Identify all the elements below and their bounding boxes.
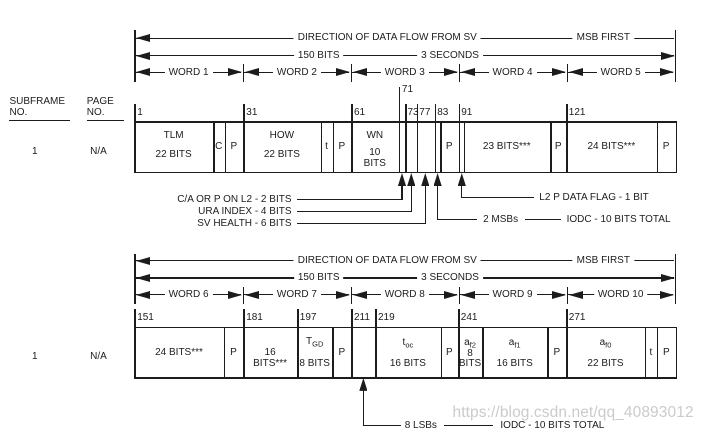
row2 cell boundary af1|P [547, 327, 549, 379]
top header word separator at x=242.9 [243, 64, 245, 82]
tick line bit 91 [459, 104, 461, 121]
bit number 181 [246, 313, 263, 323]
URA arrow stem [411, 185, 412, 213]
cell WN 10 [369, 148, 380, 158]
tick line bit 71 (tall) [399, 87, 401, 121]
underline page no. [87, 120, 124, 121]
bottom header WORD 9 left arrowhead [461, 291, 475, 299]
label 2 MSBs [483, 215, 518, 225]
cell af0 22 BITS [587, 359, 623, 369]
top header WORD 3 left arrowhead [353, 68, 367, 76]
8-LSBs arrow stem [363, 389, 364, 427]
tick line bit 181 [243, 309, 245, 327]
top header label 3 SECONDS [417, 51, 483, 61]
L2P-flag arrow stem [461, 185, 462, 199]
row1 cell boundary P1|HOW [243, 121, 245, 173]
bit number 121 [569, 108, 586, 118]
SV-health arrow head [421, 173, 429, 186]
tick line bit 121 [566, 104, 568, 121]
row1 cell boundary C|P1 [225, 121, 227, 173]
row1 cell boundary health|2MSB (83) [435, 121, 437, 173]
label C/A OR P ON L2 - 2 BITS [177, 195, 291, 205]
label SUBFRAME NO. [10, 96, 66, 118]
cell P (word9 parity) [553, 348, 560, 358]
top header WORD 5 left arrowhead [569, 68, 583, 76]
cell P (word2 parity) [338, 142, 345, 152]
bottom header WORD 10 left arrowhead [569, 291, 583, 299]
cell WN BITS [364, 159, 386, 169]
bottom header word separator at x=458.6 [459, 287, 461, 305]
SV-health arrow leader line [297, 223, 426, 224]
top header label DIRECTION OF DATA FLOW FROM SV [294, 33, 481, 43]
row2 left edge [134, 309, 136, 379]
row1 cell boundary t|P2 [333, 121, 335, 173]
bottom header WORD 6 left arrowhead [136, 291, 150, 299]
table row1 bottom border [134, 172, 677, 174]
row1 left edge [134, 104, 136, 174]
row2 cell boundary P|af2 (241) [458, 327, 460, 379]
C/A arrow leader line [297, 199, 403, 200]
row1 cell boundary L2code|URA (73) [405, 121, 407, 173]
top header label 150 BITS [294, 51, 344, 61]
top header 150-bits line [135, 55, 674, 56]
page N/A (row 2) [90, 352, 107, 362]
bottom header word separator at x=350.9 [351, 287, 353, 305]
label URA INDEX - 4 BITS [198, 207, 291, 217]
page N/A (row 1) [90, 147, 107, 157]
row1 cell boundary WN|L2code (71) [399, 121, 401, 173]
bottom header right end bar [675, 254, 677, 304]
bottom header word separator at x=242.9 [243, 287, 245, 305]
tick line bit 241 [458, 309, 460, 327]
table row2 top border [134, 327, 677, 329]
C/A arrow stem [401, 185, 402, 201]
top header WORD 1 left arrowhead [136, 68, 150, 76]
bottom header WORD 7 left arrowhead [245, 291, 259, 299]
top header label WORD 2 [273, 68, 321, 78]
top header data-flow line [135, 38, 674, 39]
C/A arrow head [398, 173, 406, 186]
bottom header left end bar [134, 254, 136, 304]
row2 cell boundary TGD|P [332, 327, 334, 379]
row2 cell boundary P|8LSB (211) [351, 327, 353, 379]
bottom header WORD 9 line [460, 294, 565, 295]
top header left end bar [134, 30, 136, 82]
subframe number 1 (row 2) [32, 352, 38, 362]
bit number 197 [300, 313, 317, 323]
top header data-flow left arrowhead [136, 34, 150, 42]
bottom header WORD 10 line [568, 294, 673, 295]
cell toc 16 BITS [390, 359, 426, 369]
row2 right edge [676, 327, 678, 379]
bottom header 150-bits line [135, 277, 674, 278]
bit number 73 [408, 108, 419, 118]
cell P (word8 parity) [446, 348, 453, 358]
bit number 151 [137, 313, 154, 323]
row2 cell boundary P|af0 (271) [566, 327, 568, 379]
top header label WORD 1 [165, 68, 213, 78]
top header label MSB FIRST [573, 33, 634, 43]
cell af1 [509, 338, 521, 351]
label L2 P DATA FLAG - 1 BIT [539, 193, 648, 203]
watermark blog url [453, 403, 694, 422]
top header WORD 2 line [244, 72, 349, 73]
row2 cell boundary t|P [657, 327, 659, 379]
bottom header label MSB FIRST [573, 256, 634, 266]
bit number 211 [354, 313, 370, 323]
row1 cell boundary 23bits|P4 [550, 121, 552, 173]
bottom header WORD 8 line [352, 294, 457, 295]
bottom header WORD 7 line [244, 294, 349, 295]
top header WORD 4 right arrowhead [552, 68, 566, 76]
top header right end bar [675, 30, 677, 82]
label SV HEALTH - 6 BITS [197, 219, 291, 229]
cell af1 16 BITS [497, 359, 533, 369]
top header WORD 3 line [352, 72, 457, 73]
bottom header WORD 8 right arrowhead [444, 291, 458, 299]
top header label WORD 5 [597, 68, 645, 78]
top header 150-bits left arrowhead [136, 52, 150, 60]
bottom header WORD 10 right arrowhead [660, 291, 674, 299]
top header WORD 5 line [568, 72, 673, 73]
bit number 71 [402, 85, 413, 95]
cell P (word3 parity) [446, 142, 453, 152]
bottom header label DIRECTION OF DATA FLOW FROM SV [294, 256, 481, 266]
top header 3-seconds right arrowhead [661, 52, 675, 60]
cell P (word1 parity) [231, 142, 238, 152]
tick line bit 219 [375, 309, 377, 327]
top header WORD 3 right arrowhead [444, 68, 458, 76]
row1 cell boundary L2Pflag|23bits [464, 121, 466, 173]
top header word separator at x=350.9 [351, 64, 353, 82]
cell TLM [164, 131, 184, 141]
label IODC - 10 BITS TOTAL (lower) [500, 421, 604, 431]
bit number 241 [461, 313, 478, 323]
IODC lower leader line [444, 425, 493, 426]
cell TLM bits [156, 150, 192, 160]
L2P-flag arrow head [458, 173, 466, 186]
tick line bit 211 [351, 309, 353, 327]
row1 cell boundary HOW|t [321, 121, 323, 173]
bit number 83 [437, 108, 448, 118]
top header WORD 2 right arrowhead [336, 68, 350, 76]
cell af2 BITS [459, 359, 481, 369]
cell C [215, 142, 222, 152]
bottom header 3-seconds right arrowhead [661, 274, 675, 282]
row2 cell boundary P|16bits (181) [243, 327, 245, 379]
cell af0 [600, 338, 612, 351]
tick line bit 83 [435, 104, 437, 121]
cell P (word6 parity) [230, 348, 237, 358]
bottom header WORD 6 line [136, 294, 242, 295]
bit number 31 [246, 108, 257, 118]
cell TGD [306, 337, 323, 350]
row2 cell boundary 24bits|P [224, 327, 226, 379]
top header label WORD 4 [489, 68, 537, 78]
bit number 91 [461, 108, 472, 118]
bottom header label WORD 9 [489, 290, 537, 300]
bottom header WORD 9 right arrowhead [552, 291, 566, 299]
table row2 bottom border [134, 377, 677, 379]
IODC upper leader line [525, 219, 561, 220]
row2 cell boundary toc|P [441, 327, 443, 379]
2-MSBs arrow stem [437, 185, 438, 221]
cell af2 [464, 338, 476, 351]
8-LSBs leader line [363, 425, 401, 426]
top header word separator at x=566.5 [567, 64, 569, 82]
cell P (word7 parity) [338, 348, 345, 358]
cell af2 8 [467, 349, 473, 359]
URA arrow leader line [297, 211, 412, 212]
cell TGD 8 BITS [299, 359, 330, 369]
bottom header label WORD 10 [594, 290, 648, 300]
tick line bit 271 [566, 309, 568, 327]
row1 cell boundary 2MSB|P3 [440, 121, 442, 173]
cell 16 BITS*** [253, 359, 287, 369]
label IODC - 10 BITS TOTAL (upper) [567, 215, 671, 225]
cell P (word10 parity) [663, 348, 670, 358]
top header WORD 2 left arrowhead [245, 68, 259, 76]
cell HOW bits [264, 150, 300, 160]
2-MSBs arrow head [434, 173, 442, 186]
bottom header label WORD 7 [273, 290, 321, 300]
row1 cell boundary URA|health (77) [417, 121, 419, 173]
cell HOW [270, 131, 294, 141]
top header WORD 5 right arrowhead [660, 68, 674, 76]
URA arrow head [407, 173, 415, 186]
top header WORD 4 line [460, 72, 565, 73]
bottom header data-flow left arrowhead [136, 257, 150, 265]
bottom header WORD 6 right arrowhead [228, 291, 242, 299]
bottom header data-flow line [135, 260, 674, 261]
SV-health arrow stem [425, 185, 426, 225]
table row1 top border [134, 121, 677, 123]
row2 cell boundary 8LSB|toc (219) [375, 327, 377, 379]
cell 16 [265, 348, 276, 358]
label PAGE NO. [87, 96, 114, 118]
row2 cell boundary af2|af1 [482, 327, 484, 379]
bottom header label WORD 6 [165, 290, 213, 300]
row2 cell boundary af0|t [645, 327, 647, 379]
cell WN [366, 131, 383, 141]
tick line bit 77 [417, 104, 419, 121]
bit number 271 [569, 313, 586, 323]
row1 cell boundary P4|24bits (121) [566, 121, 568, 173]
bit number 219 [378, 313, 395, 323]
row1 cell boundary 24bits|P5 [657, 121, 659, 173]
cell 24 BITS*** [155, 348, 203, 358]
bottom header WORD 8 left arrowhead [353, 291, 367, 299]
cell toc [403, 338, 414, 351]
bit number 1 [137, 108, 143, 118]
label 8 LSBs [405, 421, 437, 431]
bottom header word separator at x=566.5 [567, 287, 569, 305]
2-MSBs leader line [438, 219, 477, 220]
row2 cell boundary 16bits|TGD (197) [297, 327, 299, 379]
bit number 77 [419, 108, 430, 118]
tick line bit 73 [405, 104, 407, 121]
cell 24 BITS*** [587, 142, 635, 152]
cell t [325, 142, 328, 152]
top header label WORD 3 [381, 68, 429, 78]
L2P-flag leader line [462, 197, 535, 198]
tick line bit 61 [351, 104, 353, 121]
top header WORD 4 left arrowhead [461, 68, 475, 76]
row1 cell boundary TLM|C [213, 121, 215, 173]
cell P (word4 parity) [555, 142, 562, 152]
underline subframe no. [9, 120, 70, 121]
bottom header WORD 7 right arrowhead [336, 291, 350, 299]
cell 23 BITS*** [483, 142, 531, 152]
8-LSBs arrow head [359, 378, 367, 391]
top header WORD 1 right arrowhead [228, 68, 242, 76]
tick line bit 31 [243, 104, 245, 121]
bottom header label 3 SECONDS [417, 273, 483, 283]
tick line bit 197 [297, 309, 299, 327]
bottom header label WORD 8 [381, 290, 429, 300]
top header word separator at x=458.6 [459, 64, 461, 82]
row1 cell boundary P2|WN [351, 121, 353, 173]
cell P (word5 parity) [663, 142, 670, 152]
cell t (word10) [650, 348, 653, 358]
subframe number 1 (row 1) [32, 147, 38, 157]
bottom header 150-bits left arrowhead [136, 274, 150, 282]
bit number 61 [354, 108, 365, 118]
row1 right edge [676, 121, 678, 173]
bottom header label 150 BITS [294, 273, 344, 283]
top header WORD 1 line [136, 72, 242, 73]
row1 cell boundary P3|L2Pflag (91) [459, 121, 461, 173]
